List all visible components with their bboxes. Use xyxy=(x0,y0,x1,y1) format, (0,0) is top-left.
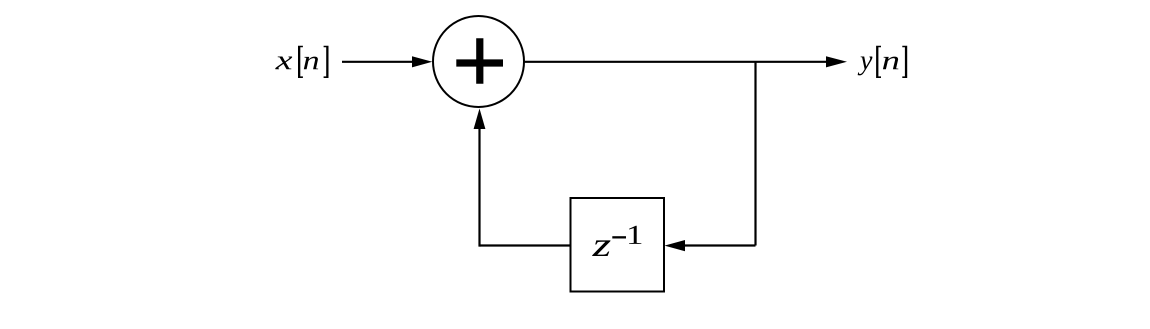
wire branch down from output xyxy=(754,62,756,246)
wire feedback riser up to adder xyxy=(478,128,480,247)
label x[n] xyxy=(275,46,328,78)
arrowhead to y[n] xyxy=(826,56,847,67)
plus sign inside adder xyxy=(456,38,503,83)
wire input x[n] to adder xyxy=(342,61,413,63)
label y[n] xyxy=(858,46,908,78)
wire adder to y[n] xyxy=(525,61,828,63)
label z^-1 xyxy=(592,226,641,256)
adder U1 circle xyxy=(433,16,524,107)
arrowhead into delay box xyxy=(665,240,686,251)
arrowhead into adder xyxy=(412,56,432,67)
wire delay box to feedback riser xyxy=(480,244,571,246)
delay block z^-1 xyxy=(571,198,665,292)
arrowhead into adder bottom xyxy=(474,109,486,130)
wire branch to delay box xyxy=(684,244,756,246)
